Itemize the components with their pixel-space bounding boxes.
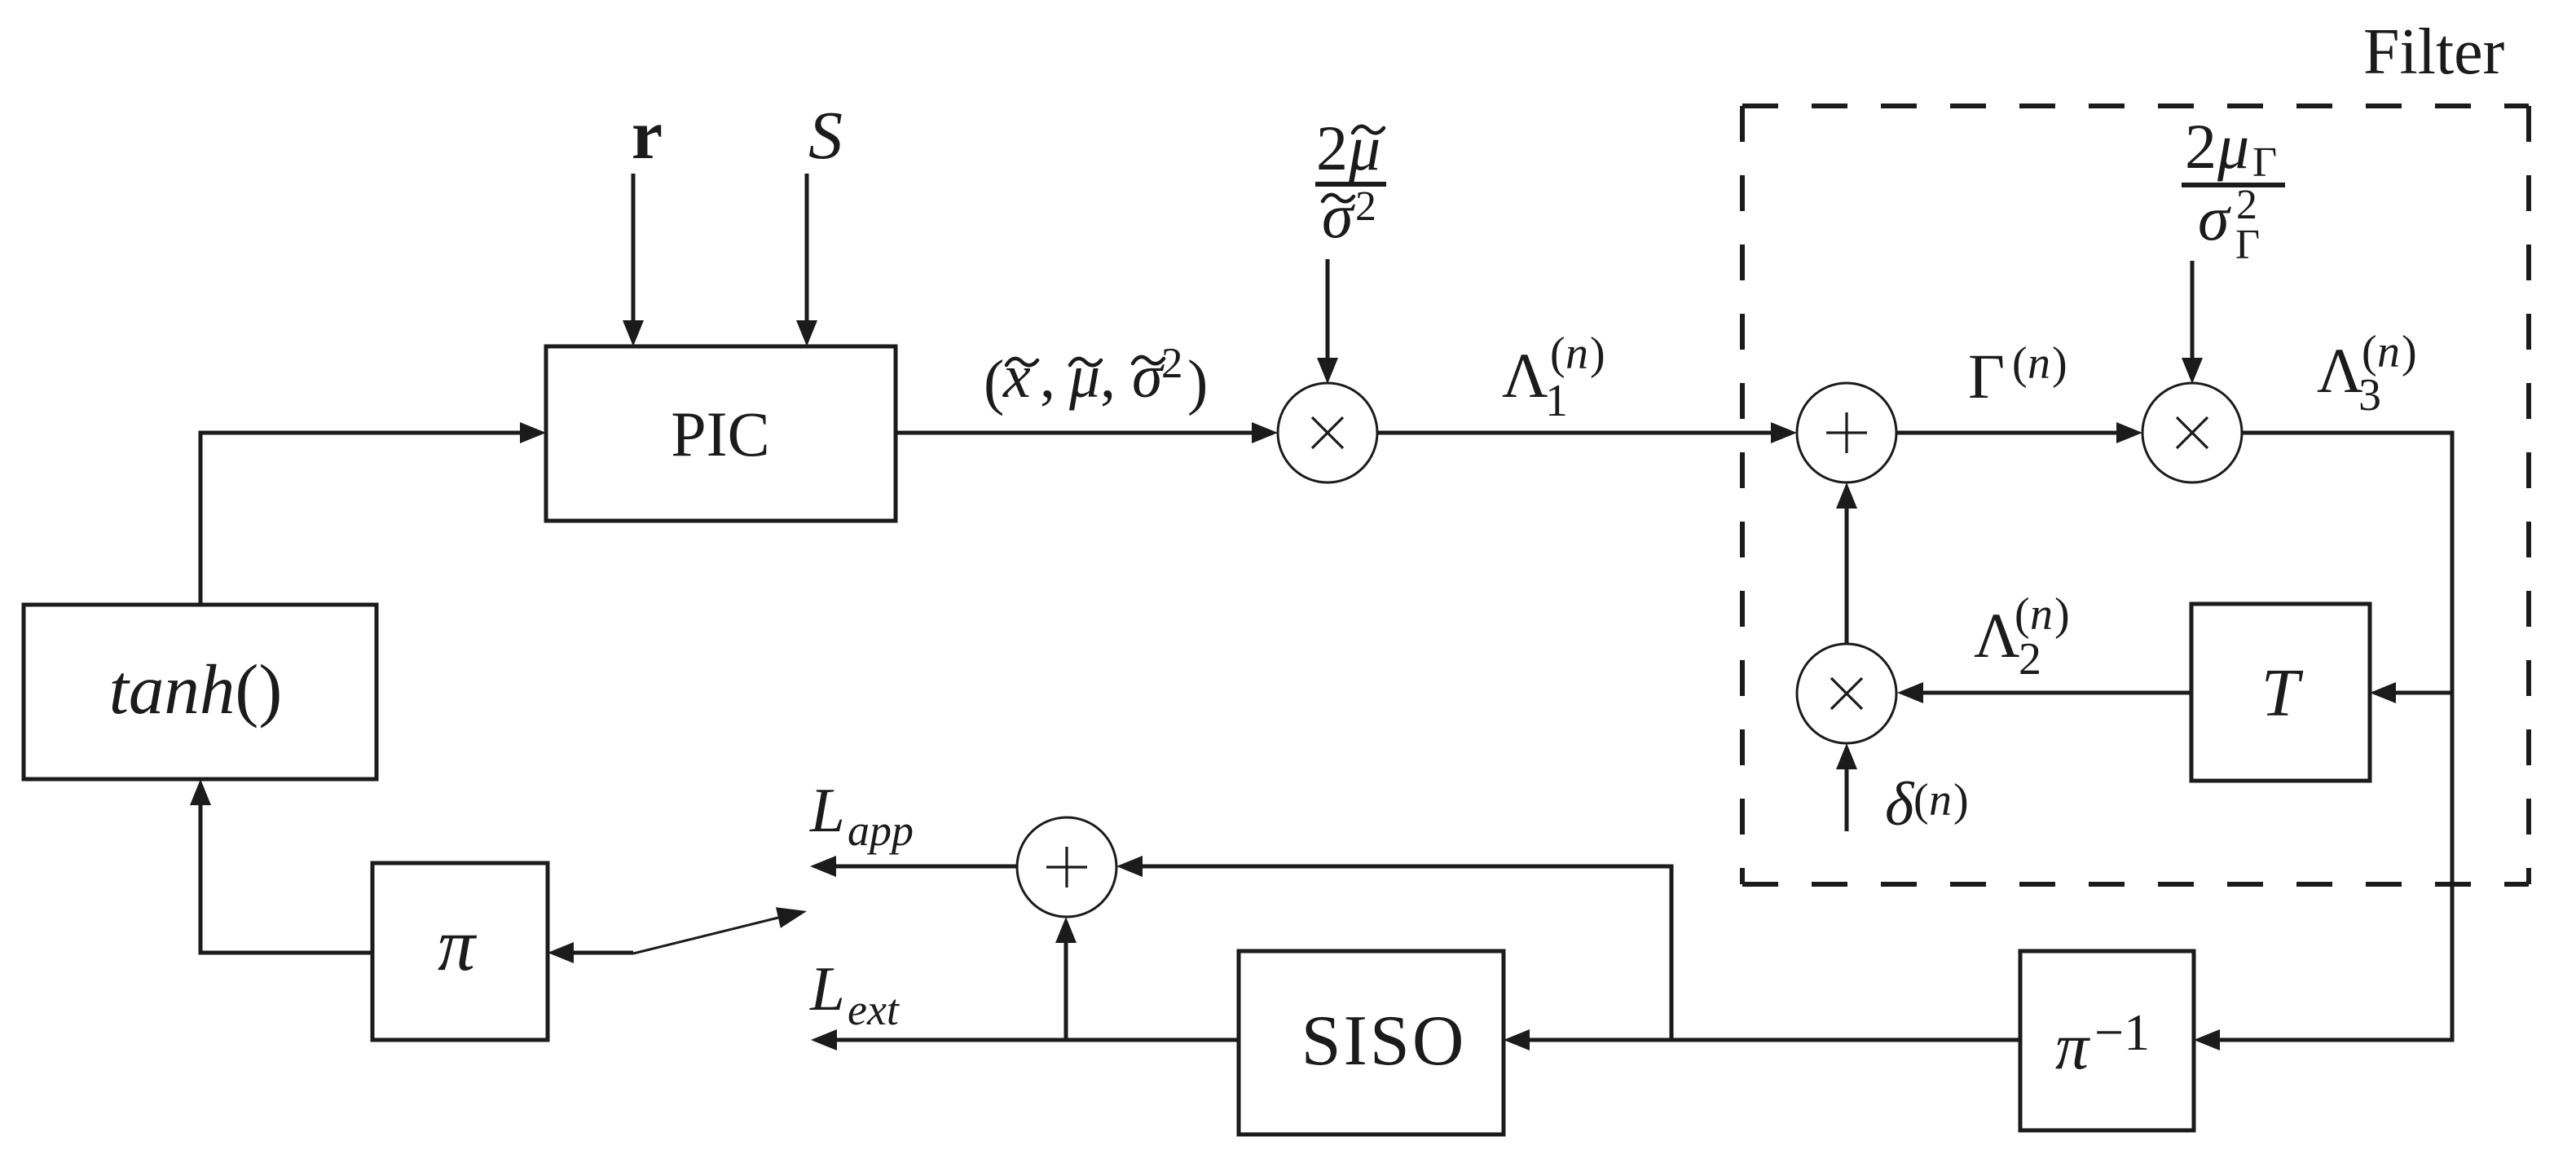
arrowhead into A1 bottom	[1836, 482, 1857, 509]
wire X2 to corner down to pi-inverse	[2206, 433, 2452, 1040]
wire pi-inverse to SISO with junction	[1516, 1038, 2020, 1042]
arrowhead switch tip	[776, 907, 807, 927]
multiplier X3	[1797, 644, 1896, 743]
arrowhead into X1	[1252, 422, 1278, 443]
svg-text:π: π	[2055, 1009, 2090, 1083]
block pi	[372, 863, 548, 1040]
block pi-inverse	[2020, 951, 2194, 1130]
svg-text:μ: μ	[2217, 111, 2249, 182]
svg-text:2: 2	[1316, 112, 1348, 183]
wire junction to T	[2382, 691, 2452, 695]
wire X1 to adder A1	[1377, 431, 1785, 435]
wire pi to corner up into tanh	[200, 791, 372, 953]
arrowhead into A1	[1771, 422, 1797, 443]
wire X3 up to A1	[1845, 495, 1849, 644]
svg-text:r: r	[632, 95, 663, 174]
svg-text:3: 3	[2358, 370, 2381, 421]
wire junction up to corner to adder A2	[1129, 866, 1671, 1040]
arrowhead into pi-inverse	[2194, 1029, 2220, 1050]
svg-text:μ: μ	[1348, 112, 1380, 183]
svg-text:2: 2	[2185, 111, 2217, 182]
arrowhead into X3 bottom	[1836, 743, 1857, 769]
svg-text:S: S	[808, 98, 843, 174]
svg-text:n: n	[1565, 328, 1588, 379]
svg-text:): )	[2054, 589, 2070, 640]
adder A2	[1017, 817, 1116, 917]
svg-text:σ: σ	[1322, 180, 1355, 251]
svg-text:Γ: Γ	[1968, 341, 2005, 412]
svg-text:2: 2	[2019, 634, 2041, 685]
svg-text:): )	[2402, 327, 2417, 377]
arrowhead into SISO	[1504, 1029, 1530, 1050]
wire PIC to X1	[896, 431, 1266, 435]
arrowhead Lapp	[810, 856, 836, 877]
svg-text:SISO: SISO	[1301, 1002, 1467, 1081]
arrowhead into PIC	[520, 422, 546, 443]
multiplier X2	[2142, 383, 2242, 482]
svg-text:): )	[1590, 328, 1605, 379]
svg-text:Λ: Λ	[2317, 335, 2363, 406]
svg-text:): )	[1187, 348, 1208, 416]
arrowhead into T	[2370, 682, 2396, 703]
svg-text:L: L	[809, 954, 845, 1024]
adder A1	[1797, 383, 1896, 482]
arrowhead into A2 right	[1116, 856, 1143, 877]
wire fraction into X1	[1326, 259, 1330, 372]
wire switch stub into pi	[560, 951, 633, 955]
block tanh	[24, 605, 376, 779]
dashed box Filter	[1742, 106, 2529, 884]
svg-text:1: 1	[1545, 376, 1568, 426]
svg-text:app: app	[848, 806, 914, 855]
arrowhead into tanh bottom	[190, 779, 211, 805]
block PIC	[546, 346, 896, 521]
svg-text:(: (	[1913, 775, 1929, 826]
svg-text:δ: δ	[1885, 770, 1915, 839]
svg-text:L: L	[809, 775, 845, 845]
svg-text:): )	[2052, 338, 2067, 389]
svg-text:n: n	[2030, 589, 2053, 640]
svg-text:ext: ext	[848, 985, 900, 1034]
svg-text:n: n	[2028, 338, 2050, 389]
svg-text:(: (	[984, 348, 1004, 416]
wire branch up into A2	[1064, 929, 1068, 1040]
wire delta into X3	[1845, 755, 1849, 831]
svg-text:2: 2	[1161, 340, 1183, 387]
wire fraction into X2	[2191, 261, 2195, 372]
svg-text:PIC: PIC	[671, 399, 769, 469]
svg-text:π: π	[438, 903, 478, 986]
arrowhead into X2	[2116, 422, 2142, 443]
svg-text:Λ: Λ	[1502, 340, 1548, 411]
arrowhead Lext	[811, 1029, 837, 1050]
svg-text:(: (	[1550, 328, 1565, 379]
block T	[2191, 604, 2370, 781]
arrowhead into X3	[1897, 682, 1923, 703]
svg-text:2: 2	[1355, 183, 1376, 230]
svg-text:(: (	[2015, 589, 2030, 640]
arrowhead S into PIC	[796, 320, 817, 346]
svg-text:,: ,	[1040, 342, 1055, 411]
arrowhead into X1 top	[1317, 358, 1338, 384]
switch lever diagonal	[633, 918, 778, 954]
wire S input	[805, 174, 809, 334]
svg-text:−1: −1	[2094, 1003, 2150, 1061]
block SISO	[1239, 951, 1504, 1134]
svg-text:x: x	[1002, 342, 1031, 411]
svg-text:Filter: Filter	[2363, 16, 2504, 88]
svg-text:tanh(): tanh()	[109, 650, 283, 729]
wire A1 to X2	[1896, 431, 2130, 435]
svg-text:T: T	[2261, 655, 2304, 731]
wire SISO output to Lext arrow	[823, 1038, 1239, 1042]
svg-text:(: (	[2012, 338, 2028, 389]
wire A2 to Lapp arrow	[822, 865, 1017, 869]
arrowhead r into PIC	[623, 320, 644, 346]
svg-text:μ: μ	[1068, 342, 1100, 411]
svg-text:Γ: Γ	[2235, 222, 2260, 268]
wire r input	[632, 174, 636, 334]
svg-text:): )	[1953, 775, 1969, 826]
arrowhead into X2 top	[2182, 358, 2203, 384]
arrowhead into A2 bottom	[1055, 917, 1077, 943]
svg-text:Λ: Λ	[1974, 600, 2020, 671]
svg-text:σ: σ	[2198, 183, 2231, 253]
arrowhead into pi right	[548, 942, 574, 963]
svg-text:,: ,	[1100, 342, 1116, 411]
svg-text:n: n	[1929, 775, 1952, 826]
wire T to X3	[1909, 691, 2191, 695]
svg-text:σ: σ	[1132, 342, 1165, 411]
wire tanh to corner to PIC	[200, 433, 534, 605]
svg-text:Γ: Γ	[2252, 139, 2277, 186]
multiplier X1	[1278, 383, 1377, 482]
